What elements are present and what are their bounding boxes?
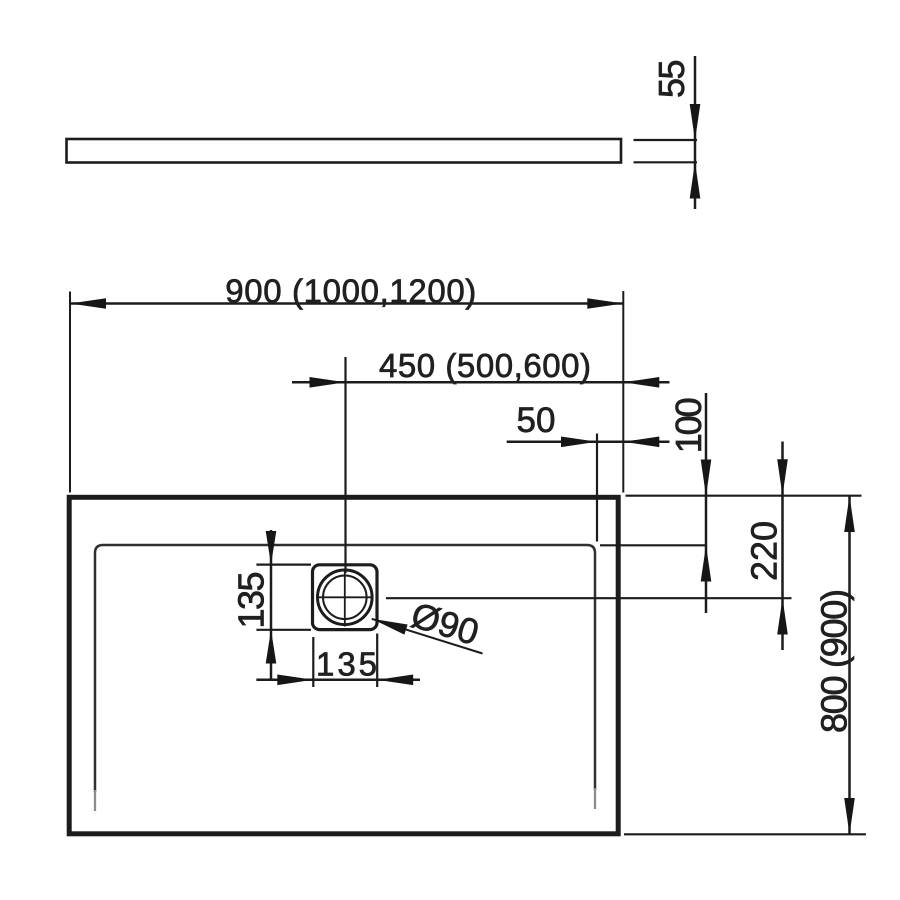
dimension line 220 vertical	[781, 442, 784, 651]
extension line drain bottom for 135	[256, 629, 311, 631]
dimension line 800 vertical	[848, 496, 851, 835]
arrowhead 55 bottom	[690, 162, 701, 199]
inner slope line fade left	[94, 790, 96, 811]
arrowhead 800 bottom	[844, 798, 855, 834]
drain inner circle	[323, 576, 367, 620]
extension line drain center right	[386, 597, 792, 599]
svg-text:800 (900): 800 (900)	[814, 589, 855, 733]
svg-text:450 (500,600): 450 (500,600)	[379, 347, 591, 384]
dimension line 50	[507, 441, 670, 444]
arrowhead 900 left	[70, 298, 106, 309]
arrowhead 220 bottom	[777, 598, 788, 634]
arrowhead 800 top	[844, 496, 855, 532]
svg-text:50: 50	[517, 401, 556, 440]
extension line right of 900 dim	[622, 291, 624, 493]
arrowhead 900 right	[587, 298, 623, 309]
leader line for drain diameter	[372, 619, 483, 654]
extension line bottom of 55 dim	[634, 161, 698, 163]
arrowhead diameter leader	[372, 619, 408, 635]
drain outer circle	[318, 570, 373, 625]
arrowhead 135 bottom left	[277, 675, 313, 686]
extension line top of 55 dim	[634, 139, 698, 141]
drain square	[313, 565, 378, 630]
extension line drain top for 135	[256, 563, 311, 565]
svg-text:55: 55	[651, 60, 692, 99]
arrowhead 220 top	[777, 459, 788, 496]
arrowhead 135 bottom right	[377, 675, 413, 686]
dimension line 135 left vertical	[270, 530, 273, 681]
extension line inner edge for 50 dim	[596, 434, 598, 542]
arrowhead 450 left	[310, 377, 346, 388]
arrowhead 135 left top	[266, 531, 277, 565]
arrowhead 450 right	[623, 377, 659, 388]
svg-text:220: 220	[744, 521, 785, 581]
dimension line 100 vertical	[705, 393, 708, 613]
svg-text:135: 135	[316, 646, 377, 683]
extension line inner top edge	[600, 544, 706, 546]
tray outline (top view)	[69, 497, 618, 834]
extension line drain right for 135 bottom	[376, 634, 378, 688]
svg-text:900 (1000,1200): 900 (1000,1200)	[225, 272, 476, 309]
svg-text:135: 135	[230, 572, 271, 629]
svg-text:100: 100	[668, 397, 709, 453]
arrowhead 135 left bottom	[266, 630, 277, 664]
side view bar (tray profile)	[67, 139, 622, 163]
extension line drain left for 135 bottom	[312, 637, 314, 687]
arrowhead 50 right	[623, 437, 659, 448]
arrowhead 100 bottom	[701, 545, 712, 581]
extension line drain centerline	[344, 357, 346, 573]
drain cross vertical	[344, 569, 346, 627]
extension line left of 900 dim	[69, 292, 71, 493]
dimension line 450	[292, 381, 670, 384]
inner slope line fade right	[594, 788, 596, 809]
arrowhead 55 top	[690, 104, 701, 141]
dimension line 55 vertical	[694, 56, 697, 209]
arrowhead 100 top	[701, 460, 712, 497]
extension line tray bottom edge right	[624, 833, 866, 835]
arrowhead 50 left	[561, 437, 597, 448]
drain cross horizontal	[317, 596, 374, 598]
dimension line 900	[70, 302, 623, 305]
extension line tray top edge right	[626, 495, 862, 497]
inner slope line	[95, 545, 595, 792]
dimension line 135 bottom horizontal	[256, 679, 420, 682]
